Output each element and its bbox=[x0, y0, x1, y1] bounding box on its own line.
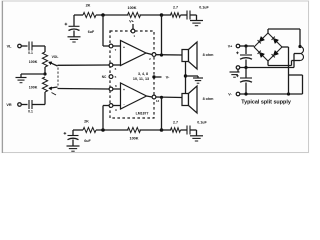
svg-text:V+: V+ bbox=[228, 45, 233, 49]
svg-text:10, 11, 13: 10, 11, 13 bbox=[133, 77, 149, 81]
svg-text:100K: 100K bbox=[29, 86, 38, 90]
svg-text:VL: VL bbox=[7, 45, 13, 49]
svg-text:2.7: 2.7 bbox=[173, 6, 178, 10]
svg-text:VR: VR bbox=[6, 103, 12, 107]
svg-text:+: + bbox=[123, 88, 125, 92]
svg-text:8 ohm: 8 ohm bbox=[203, 97, 215, 101]
svg-text:2K: 2K bbox=[84, 120, 89, 124]
svg-text:V-: V- bbox=[166, 75, 170, 80]
svg-text:6uF: 6uF bbox=[84, 139, 91, 143]
svg-text:+: + bbox=[123, 45, 125, 49]
svg-text:100K: 100K bbox=[129, 137, 138, 141]
svg-text:2K: 2K bbox=[86, 4, 91, 8]
svg-text:100K: 100K bbox=[127, 6, 136, 10]
svg-text:13: 13 bbox=[156, 99, 160, 103]
svg-text:2.7: 2.7 bbox=[173, 121, 178, 125]
svg-text:8 ohm: 8 ohm bbox=[203, 53, 215, 57]
svg-text:0.1uF: 0.1uF bbox=[197, 121, 207, 125]
svg-text:V+: V+ bbox=[129, 20, 135, 24]
svg-text:NC: NC bbox=[102, 75, 107, 79]
svg-text:0.1: 0.1 bbox=[28, 51, 33, 55]
svg-text:3, 4, 8: 3, 4, 8 bbox=[138, 72, 148, 76]
svg-text:0.1: 0.1 bbox=[28, 110, 33, 114]
svg-text:0.1uF: 0.1uF bbox=[199, 6, 209, 10]
svg-text:LM1877: LM1877 bbox=[136, 112, 149, 116]
svg-text:VOL: VOL bbox=[52, 55, 59, 59]
svg-text:100K: 100K bbox=[29, 60, 38, 64]
svg-text:Typical split supply: Typical split supply bbox=[241, 100, 291, 106]
svg-text:6uF: 6uF bbox=[88, 30, 95, 34]
